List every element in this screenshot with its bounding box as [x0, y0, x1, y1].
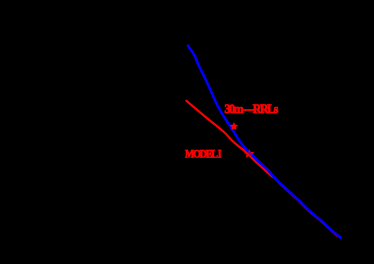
blue observed curve — [188, 46, 341, 238]
svg-text:MODEL I: MODEL I — [185, 148, 222, 160]
star marker on blue curve — [231, 123, 238, 129]
red model curve — [186, 101, 272, 177]
red curve continuation hidden under blue (fringe) — [268, 170, 338, 235]
star marker on crossing — [245, 150, 254, 157]
star marker on crossing: translucent overlay above blue line — [245, 150, 254, 157]
svg-text:30m—RRLs: 30m—RRLs — [225, 101, 279, 116]
